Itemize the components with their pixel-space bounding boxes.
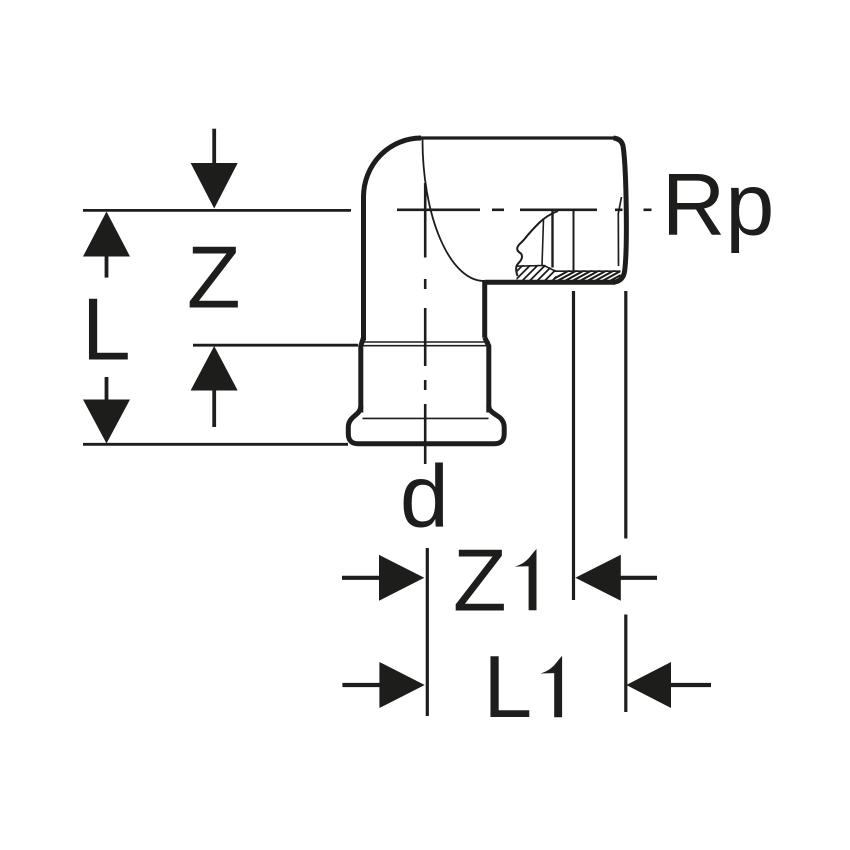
thread break wavy line — [516, 211, 558, 276]
elbow body: bottom edge of horizontal cylinder — [485, 280, 615, 285]
Z1 dim shaft right — [620, 576, 657, 580]
extension line right end lower — [624, 615, 627, 713]
elbow body: top edge of horizontal cylinder — [419, 136, 615, 139]
L up arrowhead — [83, 212, 130, 257]
socket mouth line 1 — [360, 341, 490, 343]
thread line a — [542, 220, 544, 267]
svg-text:Z: Z — [453, 530, 507, 629]
extension line right end upper — [624, 291, 627, 539]
Z1 left arrowhead — [379, 555, 424, 601]
L1 dim shaft right — [670, 683, 711, 687]
label L1 digit 1 — [540, 656, 562, 717]
top reference line — [83, 209, 351, 212]
L1 right arrowhead — [626, 662, 671, 708]
Z1 right arrowhead — [575, 555, 621, 601]
L1 left arrowhead — [379, 662, 424, 708]
Z up arrowhead — [191, 346, 238, 391]
hatch right section — [548, 270, 638, 282]
vertical centerline through socket — [424, 183, 427, 464]
bend/cylinder intersection arc — [422, 140, 484, 282]
Z reference line — [193, 344, 358, 347]
press bead outline — [348, 406, 504, 444]
svg-text:Rp: Rp — [662, 155, 775, 254]
extension line socket centerline — [426, 548, 429, 716]
L1 dim shaft left — [342, 683, 380, 687]
svg-text:Z: Z — [187, 228, 241, 327]
Z1 dim shaft left — [342, 576, 380, 580]
svg-text:L: L — [483, 637, 532, 736]
socket mouth line 2 — [359, 345, 491, 347]
Z up arrow shaft — [212, 388, 216, 427]
bead top line — [363, 417, 489, 419]
thread line c — [573, 211, 575, 272]
hatch outline top — [517, 266, 621, 272]
top down arrow shaft — [212, 129, 216, 166]
L up arrow shaft — [105, 253, 109, 278]
top down arrowhead — [191, 163, 238, 209]
L down arrow shaft — [105, 377, 109, 401]
svg-text:L: L — [82, 279, 131, 378]
elbow body: right end outer edge — [614, 138, 627, 282]
press socket right wall with flare — [485, 338, 489, 413]
label Z1 digit 1 — [515, 549, 537, 610]
horizontal centerline through cylinder — [397, 209, 652, 212]
svg-text:d: d — [400, 447, 449, 546]
press socket left wall with flare — [361, 338, 364, 413]
elbow body: left outer curve and vertical tube left edge — [364, 138, 422, 341]
vertical tube right edge — [482, 280, 487, 338]
thread line b — [551, 211, 553, 268]
hatch left section — [506, 264, 569, 282]
extension line thread start — [572, 291, 575, 600]
bottom reference line — [83, 443, 348, 446]
right end inner chamfer line — [618, 197, 621, 266]
L down arrowhead — [83, 400, 130, 444]
